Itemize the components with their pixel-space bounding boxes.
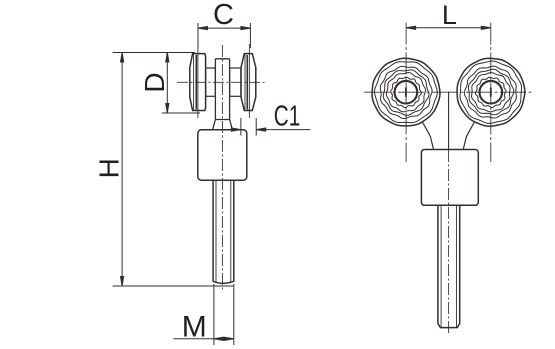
left wheel knurled ring 4 [386,73,425,112]
dimension H line and arrows [113,53,234,287]
svg-text:L: L [442,0,457,30]
rod thread line right (right view) [456,205,458,327]
mounting body right view [421,150,478,206]
center body between rollers [215,59,229,120]
rod thread line right [230,180,232,282]
left roller groove line [195,55,197,110]
rod thread line left [215,180,217,282]
left roller (side profile octagon) [190,54,206,111]
right wheel knurled ring 1 [460,61,522,123]
mounting block left view [198,130,247,180]
right roller inner face line [244,55,246,111]
right yoke arm [463,122,474,149]
right roller groove line [246,55,248,110]
svg-text:C1: C1 [274,101,301,133]
body centerline right view [448,150,450,334]
right wheel knurled ring 5 [476,77,507,108]
right axle hub [230,68,241,96]
horizontal centerline left view [177,81,266,83]
wheels horizontal centerline [364,91,533,93]
left wheel axle tick [405,88,407,97]
right roller centerline [248,44,250,118]
vertical centerline left view body and rod [221,45,223,290]
dimension C1 lines and arrows [228,118,311,136]
bracket taper [213,120,233,130]
left wheel hub bore [395,81,418,104]
rod thread line left (right view) [440,205,442,327]
left wheel knurled ring 5 [391,77,422,108]
threaded rod left view [213,180,234,283]
svg-text:H: H [93,158,124,178]
dimension D line and arrows [162,53,200,114]
right wheel axle tick [490,88,492,97]
right wheel knurled ring 2 [464,66,516,118]
left wheel knurled ring 1 [374,62,437,123]
left yoke arm [423,122,434,149]
svg-text:D: D [139,72,170,92]
right roller (side profile octagon) [241,54,256,111]
left roller inner face line [193,55,195,111]
svg-text:C: C [213,0,234,31]
dimension C lines and arrows [198,23,250,48]
left roller centerline [197,44,199,118]
right wheel vertical centerline [490,23,492,163]
yoke center line [448,92,450,151]
right wheel knurled ring 4 [472,73,511,112]
left wheel outer rim [372,58,440,126]
dimension M lines and arrows [174,284,234,345]
right wheel outer rim [457,58,525,126]
left wheel vertical centerline [405,23,407,163]
right wheel knurled ring 3 [468,69,513,115]
left wheel knurled ring 3 [383,70,429,116]
dimension L line and arrows [406,26,491,29]
threaded rod right view [438,205,460,327]
left wheel knurled ring 2 [380,66,432,118]
right wheel hub bore [480,81,503,104]
left axle hub [206,68,216,96]
